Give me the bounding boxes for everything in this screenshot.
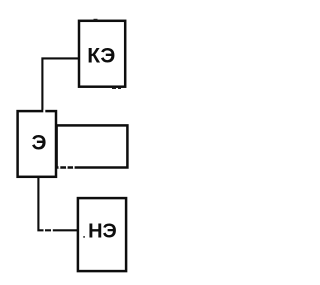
svg-text:Э: Э [32, 132, 47, 155]
svg-text:КЭ: КЭ [87, 44, 115, 67]
svg-text:НЭ: НЭ [88, 221, 117, 243]
